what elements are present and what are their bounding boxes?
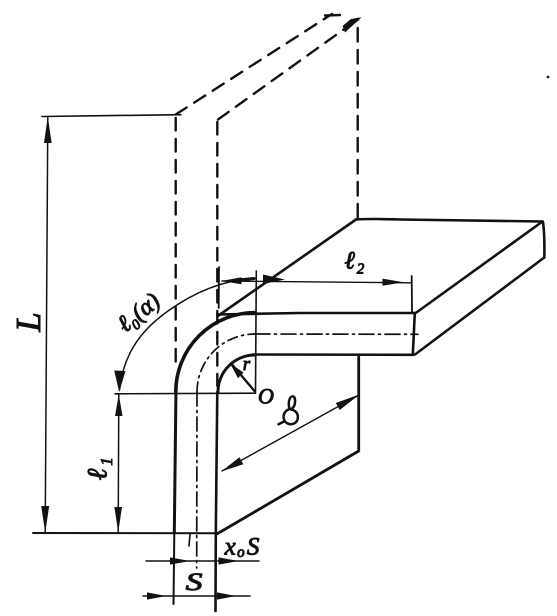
label s [186, 569, 203, 596]
wire: dashed flat-pattern outer surface (vertical) [174, 118, 176, 368]
part: right face bottom depth edge [218, 451, 359, 534]
wire: bottom extension line [33, 532, 217, 534]
part: outer vertical surface (solid) [174, 388, 176, 533]
svg-text:ℓ₂: ℓ₂ [344, 248, 365, 275]
wire: vertical construction line at bend end (x=256) [255, 271, 258, 392]
part: slab top face right edge [415, 222, 543, 314]
dimension l0(alpha) curved line [114, 275, 285, 393]
label B [279, 396, 298, 424]
part: right face back vertical edge of lower leg [357, 357, 360, 451]
dimension r arrow from O [230, 363, 255, 391]
part: top edge of horizontal leg [218, 313, 416, 315]
wire: small tick below bottom edge [189, 534, 190, 546]
wire: extension tick for l2 left (x=219) [218, 267, 220, 308]
svg-text:O: O [258, 384, 274, 409]
part: inner bend arc [218, 355, 255, 392]
wire: dashed flat-pattern inner surface (vertical) [216, 122, 218, 386]
dimension s line with arrows [143, 592, 250, 599]
dimension x0s line with arrows [146, 557, 259, 564]
wire: dashed flat-pattern top-left depth edge [176, 14, 332, 115]
svg-text:S: S [186, 569, 203, 596]
part: outer bend arc [176, 313, 256, 393]
part: right end edge of horizontal leg front face [413, 313, 415, 355]
wire: top extension line of flat length L [42, 115, 181, 117]
label r [243, 354, 251, 375]
part: slab top face left depth edge [219, 220, 357, 316]
label x0s [224, 534, 262, 561]
label l0(alpha) [113, 288, 166, 338]
wire: dashed flat-pattern top end edge [325, 14, 340, 17]
label l2 [344, 248, 365, 275]
part: bottom edge of horizontal leg [253, 353, 413, 356]
part: slab right end bottom edge [415, 258, 544, 355]
dimension L line with arrows [41, 117, 51, 533]
centerline: horizontal dash-dot neutral line [255, 333, 418, 335]
svg-text:r: r [243, 354, 251, 375]
dimension l2 line with arrows [221, 277, 412, 286]
centerline: vertical dash-dot neutral line [196, 392, 198, 568]
dimension B diagonal line with arrows [221, 394, 359, 471]
wire: extension line at bend start (y=393.5) [115, 392, 256, 395]
part: slab right back vertical edge [543, 222, 544, 258]
speck top right [547, 76, 550, 79]
svg-text:xₒS: xₒS [224, 534, 262, 561]
node O label [258, 384, 274, 409]
label L [9, 312, 48, 332]
svg-text:L: L [9, 312, 48, 332]
part: slab top face back edge [356, 219, 543, 222]
wire: dashed flat-pattern back edge (vertical right) [357, 28, 359, 218]
part: inner vertical surface (solid, extended down as extension line) [216, 392, 218, 611]
wire: dashed flat-pattern inner depth edge [218, 17, 362, 119]
dimension l1 line with arrows [114, 395, 122, 533]
wire: left extension line for s (outer surface extended) [173, 534, 176, 604]
label l1 [83, 456, 114, 480]
svg-text:ℓ₁: ℓ₁ [83, 456, 114, 480]
centerline: neutral bend arc dash-dot [197, 334, 255, 392]
wire: extension line for l2 right (x=412) [411, 276, 413, 312]
